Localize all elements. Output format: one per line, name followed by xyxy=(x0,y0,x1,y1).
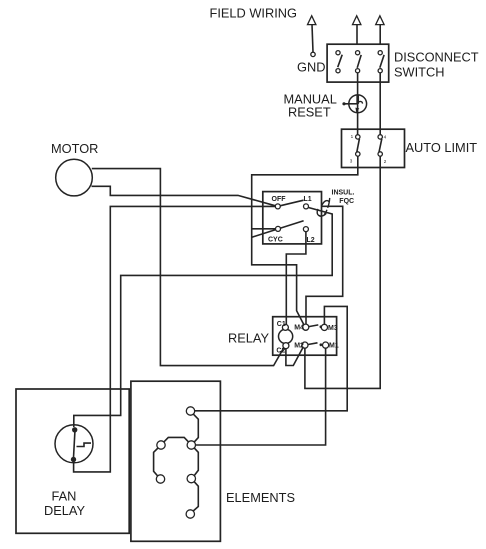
disconnect switch pole 3 xyxy=(378,51,384,73)
svg-text:FIELD WIRING: FIELD WIRING xyxy=(210,6,297,21)
terminal L2 xyxy=(303,227,308,232)
element terminal D xyxy=(156,475,164,483)
element jog B-E xyxy=(194,448,198,475)
field wiring arrow (line 1) xyxy=(353,16,361,44)
svg-text:AUTO LIMIT: AUTO LIMIT xyxy=(406,140,478,155)
field wiring arrow (line 2) xyxy=(376,16,384,44)
wire: auto limit 2 down to relay M2 xyxy=(305,156,380,388)
svg-text:M3: M3 xyxy=(328,325,338,332)
element terminal A (top) xyxy=(186,407,194,415)
elements box xyxy=(131,381,221,541)
svg-text:ELEMENTS: ELEMENTS xyxy=(226,490,295,505)
element terminal F xyxy=(186,510,194,518)
wire: thermostat OFF to fan delay lower terminal xyxy=(74,206,276,472)
svg-text:OFF: OFF xyxy=(272,196,287,203)
wire: pole2 bottom to manual reset to auto limit xyxy=(357,73,359,135)
motor M1 xyxy=(56,159,93,196)
element jog A-B xyxy=(193,414,198,442)
insulated FQC sleeve symbol xyxy=(317,198,330,216)
element bridge C-B xyxy=(164,437,189,442)
wire: relay M1 down to elements second xyxy=(196,348,326,445)
wire: L1 via insul sleeve down-left to fan delay top terminal xyxy=(74,208,332,428)
element terminal C xyxy=(157,441,165,449)
thermostat switch blade CYC xyxy=(252,221,304,238)
svg-text:RESET: RESET xyxy=(288,105,331,120)
svg-text:GND: GND xyxy=(297,60,325,75)
disconnect switch box xyxy=(327,44,389,82)
element terminal B xyxy=(187,441,195,449)
svg-text:FAN: FAN xyxy=(52,488,77,503)
GND terminal circle xyxy=(311,52,315,56)
relay contact M2-M1 xyxy=(302,342,329,348)
disconnect switch pole 2 xyxy=(356,51,362,73)
thermostat switch blade OFF-L1 xyxy=(280,200,304,206)
svg-text:M4: M4 xyxy=(294,325,304,332)
auto limit pole 2 xyxy=(378,135,382,157)
terminal OFF xyxy=(275,204,280,209)
svg-text:M1: M1 xyxy=(329,343,339,350)
svg-text:INSUL.: INSUL. xyxy=(332,190,355,197)
svg-text:FQC: FQC xyxy=(339,198,354,205)
disconnect switch pole 1 xyxy=(336,51,342,73)
relay box xyxy=(273,317,337,356)
svg-text:RELAY: RELAY xyxy=(228,331,269,346)
wire: motor bottom to thermostat OFF xyxy=(92,186,276,206)
auto limit pole 1 xyxy=(356,135,360,157)
field wiring arrow (GND) xyxy=(308,16,316,52)
manual reset device xyxy=(342,95,366,113)
wire: relay C2 to M2 strap xyxy=(286,348,303,366)
svg-text:CYC: CYC xyxy=(268,236,283,243)
relay terminal C1 xyxy=(282,324,288,330)
relay terminal C2 xyxy=(283,343,289,349)
svg-text:DELAY: DELAY xyxy=(44,503,85,518)
fan delay box xyxy=(16,389,129,533)
terminal CYC xyxy=(276,226,281,231)
svg-text:3: 3 xyxy=(350,158,353,163)
wire: auto limit 3 around thermostat to relay M4 xyxy=(252,156,358,325)
svg-text:SWITCH: SWITCH xyxy=(394,65,444,80)
thermostat box xyxy=(263,192,322,244)
svg-text:C2: C2 xyxy=(276,347,285,354)
svg-text:1: 1 xyxy=(351,134,354,139)
wire: L1 right to relay M4 xyxy=(306,206,343,324)
svg-text:MOTOR: MOTOR xyxy=(51,141,98,156)
svg-text:4: 4 xyxy=(384,134,387,139)
fan delay thermal switch xyxy=(55,425,93,463)
svg-text:L2: L2 xyxy=(307,237,315,244)
svg-text:2: 2 xyxy=(384,159,387,164)
svg-text:L1: L1 xyxy=(304,196,312,203)
wire: motor top to relay C2 (via right and bottom) xyxy=(92,169,284,366)
element jog C-D xyxy=(154,448,158,476)
wire: relay M3 up and down right side to elements top xyxy=(195,306,347,410)
wire: L2 to relay C1 xyxy=(286,232,306,325)
terminal L1 xyxy=(304,204,309,209)
auto limit box xyxy=(342,129,405,167)
relay coil xyxy=(279,329,293,343)
element jog E-F xyxy=(193,482,198,511)
svg-text:C1: C1 xyxy=(277,321,286,328)
wire: pole3 bottom to auto limit right xyxy=(379,73,381,135)
element terminal E xyxy=(187,474,195,482)
wire: branch to CYC xyxy=(252,228,276,230)
svg-text:DISCONNECT: DISCONNECT xyxy=(394,49,479,64)
relay contact M4-M3 xyxy=(303,324,328,330)
svg-text:M2: M2 xyxy=(294,343,304,350)
